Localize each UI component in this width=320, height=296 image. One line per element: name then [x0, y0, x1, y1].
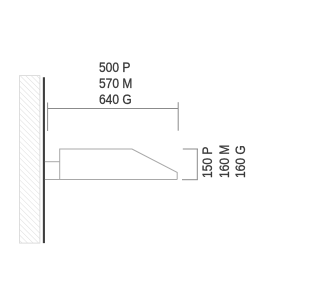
- width labels 500 P / 570 M / 640 G: [99, 60, 132, 108]
- height label 160 M (rotated): [217, 144, 233, 177]
- height dimension line: [196, 149, 198, 180]
- width dimension right tick: [177, 102, 179, 131]
- width dimension line: [48, 108, 179, 110]
- height dimension top tick: [183, 148, 198, 150]
- wall face line: [43, 77, 45, 243]
- height dimension bottom tick: [182, 179, 198, 181]
- height label 160 G (rotated): [233, 145, 249, 178]
- width dimension left tick: [47, 103, 49, 132]
- wall section (hatched strip): [20, 76, 40, 244]
- hood rear top edge: [45, 161, 60, 163]
- height label 150 P (rotated): [200, 146, 216, 177]
- hood bottom edge: [45, 179, 177, 181]
- hood body outline: [60, 149, 178, 180]
